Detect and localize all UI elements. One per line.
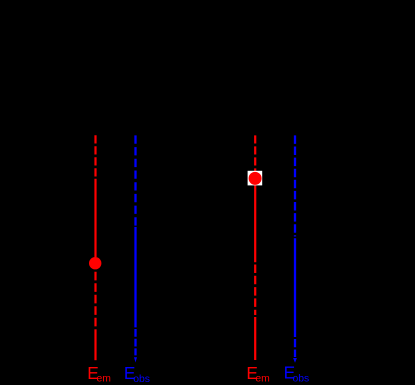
svg-text:em: em bbox=[255, 373, 269, 384]
left panel: E_obs solid middle segment bbox=[134, 227, 136, 328]
right panel: E_em solid bottom segment bbox=[254, 317, 256, 360]
left panel: E_em solid bottom segment bbox=[94, 329, 96, 360]
left panel: observed-frame energy scale E_obs (blue dashed axis, top part) bbox=[134, 135, 136, 225]
right panel: red photon-energy marker dot bbox=[249, 172, 262, 185]
right panel: white bbox behind marker bbox=[248, 171, 263, 186]
right panel: E_em dashed segment bbox=[254, 265, 256, 316]
left panel: emitted-frame energy scale E_em (red dashed axis, top part) bbox=[94, 135, 96, 177]
right panel: E_em solid segment below marker bbox=[254, 186, 256, 263]
left panel: E_em solid segment above marker bbox=[94, 179, 96, 257]
right panel: emitted-frame energy scale E_em (red dashed axis, top part) bbox=[254, 135, 256, 171]
left panel: E_obs downward arrowhead bbox=[134, 357, 137, 362]
left panel: E_em dashed segment below marker bbox=[94, 272, 96, 328]
right panel: observed-frame energy scale E_obs (blue dashed axis, top part) bbox=[294, 135, 296, 236]
left panel: E_obs dashed bottom segment bbox=[134, 329, 136, 355]
right panel: E_obs dashed bottom segment bbox=[294, 339, 296, 357]
right panel: E_obs downward arrowhead bbox=[293, 358, 297, 363]
svg-text:obs: obs bbox=[293, 373, 310, 384]
left panel: red photon-energy marker dot bbox=[89, 257, 101, 269]
svg-text:obs: obs bbox=[133, 374, 150, 385]
right panel: E_obs solid middle segment bbox=[294, 238, 296, 337]
svg-text:em: em bbox=[97, 374, 111, 385]
